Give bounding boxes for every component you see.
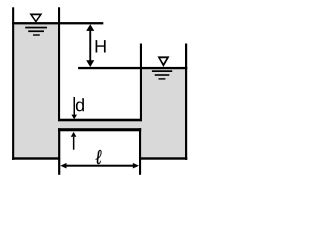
right tank right wall	[185, 44, 187, 160]
dimension d upper arrow shaft	[74, 97, 76, 115]
left tank bottom wall	[12, 157, 60, 159]
right water surface line with H reference extension	[78, 67, 187, 69]
pedestal right edge	[139, 128, 141, 175]
left tank left wall	[12, 7, 14, 160]
right tank water fill	[141, 68, 186, 158]
channel top wall line	[58, 119, 142, 122]
dimension l right arrowhead	[133, 163, 139, 169]
channel bottom wall line	[58, 128, 141, 131]
dimension d upper arrowhead pointing down	[71, 115, 77, 120]
label H	[96, 40, 106, 52]
dimension l left arrowhead	[60, 163, 66, 169]
left water level shore line 3	[33, 34, 40, 35]
left water level shore line 2	[28, 30, 44, 32]
label l script ell	[96, 150, 102, 164]
dimension H arrow shaft	[89, 30, 91, 61]
pedestal left edge	[58, 128, 60, 175]
dimension d lower arrowhead pointing up	[71, 132, 77, 137]
right water level shore line 3	[159, 78, 166, 79]
left water level shore line 1	[25, 27, 47, 29]
left water surface line with H reference extension	[12, 22, 103, 24]
dimension H bottom arrowhead	[86, 60, 94, 67]
left tank inner right wall	[58, 7, 60, 121]
right water level shore line 1	[152, 70, 172, 72]
right water level shore line 2	[155, 74, 170, 76]
right tank bottom wall	[139, 157, 187, 159]
left water level symbol triangle	[29, 14, 42, 23]
dimension H top arrowhead	[86, 24, 94, 31]
right water level symbol triangle	[158, 56, 170, 67]
left tank water fill	[13, 23, 60, 158]
dimension l arrow shaft	[64, 165, 136, 167]
dimension d lower arrow shaft	[73, 137, 75, 150]
label d	[76, 98, 84, 111]
connecting channel water fill	[58, 120, 142, 130]
right tank left wall	[140, 44, 142, 122]
